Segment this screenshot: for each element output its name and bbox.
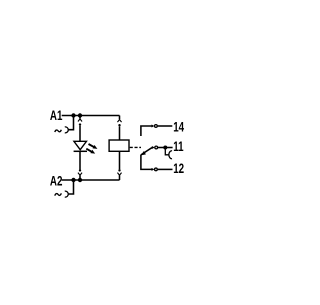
svg-text:11: 11: [173, 138, 184, 154]
svg-text:A2: A2: [50, 173, 63, 189]
svg-text:12: 12: [173, 161, 184, 177]
svg-text:A1: A1: [50, 107, 63, 123]
svg-text:14: 14: [173, 119, 184, 135]
